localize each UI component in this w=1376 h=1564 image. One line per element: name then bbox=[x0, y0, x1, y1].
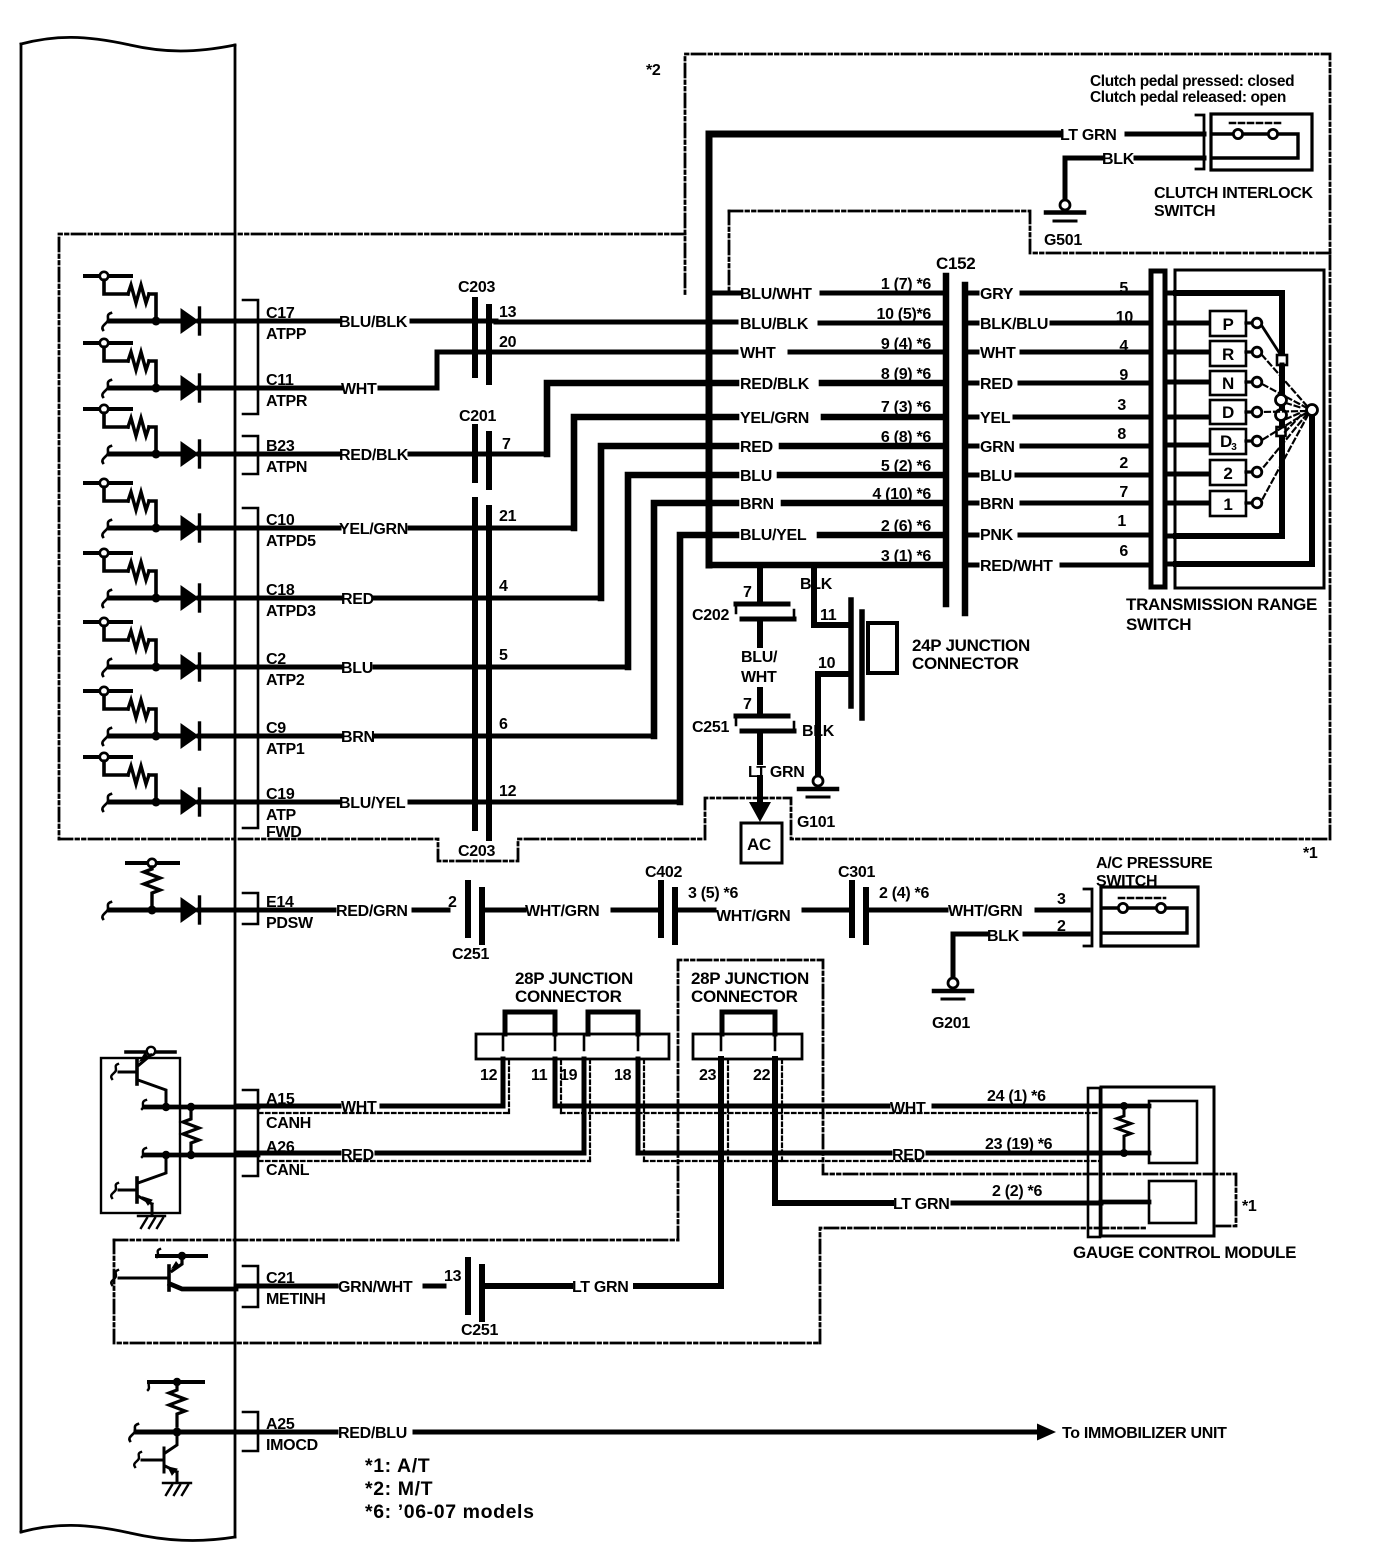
connector C202 (horizontal) bbox=[736, 604, 794, 619]
svg-text:G101: G101 bbox=[797, 814, 835, 831]
svg-text:TRANSMISSION RANGE: TRANSMISSION RANGE bbox=[1126, 595, 1317, 614]
svg-text:WHT/GRN: WHT/GRN bbox=[525, 903, 599, 920]
svg-text:*2: *2 bbox=[646, 62, 661, 79]
svg-text:GAUGE CONTROL MODULE: GAUGE CONTROL MODULE bbox=[1073, 1243, 1296, 1262]
wire C18 RED to C203 pin4 bbox=[236, 596, 601, 601]
svg-text:RED/BLK: RED/BLK bbox=[740, 376, 810, 393]
svg-text:CANH: CANH bbox=[266, 1115, 311, 1132]
svg-text:7: 7 bbox=[1119, 484, 1128, 501]
svg-text:2 (6) *6: 2 (6) *6 bbox=[881, 518, 931, 535]
BLK tee wire to 24P junction pin 11 bbox=[814, 565, 849, 625]
connector bracket A25 bbox=[243, 1412, 258, 1451]
28P JUNCTION CONNECTOR label (left) bbox=[515, 969, 633, 1006]
svg-text:1 (7) *6: 1 (7) *6 bbox=[881, 276, 931, 293]
svg-text:ATPR: ATPR bbox=[266, 393, 308, 410]
svg-text:10: 10 bbox=[818, 655, 836, 672]
svg-text:2 (4) *6: 2 (4) *6 bbox=[879, 885, 929, 902]
svg-text:BLK: BLK bbox=[802, 723, 835, 740]
TRS wiper: solid link from P bbox=[1262, 326, 1282, 357]
routing wire BLU/YEL riser bbox=[680, 535, 943, 802]
svg-text:7 (3) *6: 7 (3) *6 bbox=[881, 399, 931, 416]
28P junction connector (right) bar bbox=[693, 1034, 802, 1059]
svg-text:BLK: BLK bbox=[987, 928, 1020, 945]
svg-text:BLK/BLU: BLK/BLU bbox=[980, 316, 1048, 333]
svg-text:G201: G201 bbox=[932, 1015, 970, 1032]
svg-text:2: 2 bbox=[1223, 464, 1232, 483]
wire C19 BLU/YEL to C203 pin12 bbox=[236, 800, 680, 805]
svg-text:13: 13 bbox=[444, 1268, 462, 1285]
svg-text:8 (9) *6: 8 (9) *6 bbox=[881, 366, 931, 383]
sensor cell row C10 bbox=[85, 479, 236, 541]
connector bracket C17/C11 bbox=[243, 300, 258, 414]
svg-text:C251: C251 bbox=[452, 946, 489, 963]
range switch pin numbers bbox=[1116, 280, 1134, 560]
svg-text:CONNECTOR: CONNECTOR bbox=[515, 987, 622, 1006]
TRS gear letter boxes P R N D D3 2 1 bbox=[1210, 311, 1246, 516]
28P right pin 23 (long drop to LT GRN) bbox=[718, 1059, 724, 1286]
svg-text:12: 12 bbox=[499, 783, 517, 800]
C152 left labels bbox=[740, 286, 812, 544]
svg-text:WHT: WHT bbox=[980, 345, 1016, 362]
svg-text:WHT/GRN: WHT/GRN bbox=[716, 908, 790, 925]
routing wire BRN riser bbox=[654, 503, 943, 736]
svg-text:C402: C402 bbox=[645, 864, 682, 881]
svg-text:IMOCD: IMOCD bbox=[266, 1437, 318, 1454]
svg-text:BLU/YEL: BLU/YEL bbox=[740, 527, 807, 544]
ground G201 bbox=[932, 978, 972, 1032]
chassis ground hatch under Q2 bbox=[138, 1216, 165, 1228]
svg-text:RED: RED bbox=[980, 376, 1013, 393]
arrow to immobilizer bbox=[1037, 1424, 1056, 1441]
svg-text:RED/WHT: RED/WHT bbox=[980, 558, 1053, 575]
wiper circle nodes bbox=[1276, 395, 1287, 406]
chassis ground hatch under Q3 bbox=[163, 1483, 191, 1495]
connector C251 (E14 row) bbox=[468, 883, 482, 942]
A25 wire RED/BLU to immobilizer bbox=[236, 1430, 1038, 1435]
svg-text:CONNECTOR: CONNECTOR bbox=[691, 987, 798, 1006]
IMOCD cell: resistor + transistor bbox=[129, 1378, 236, 1441]
connector bracket A15/A26 bbox=[243, 1090, 258, 1176]
svg-text:ATPD3: ATPD3 bbox=[266, 603, 316, 620]
28P left bar pin ticks bbox=[503, 1036, 638, 1050]
clutch interlock BLK wire bbox=[1065, 158, 1204, 200]
TRANSMISSION RANGE SWITCH label bbox=[1126, 595, 1317, 634]
AC box bbox=[741, 823, 782, 863]
sensor cell row C17 bbox=[85, 272, 236, 334]
A/C PRESSURE SWITCH label bbox=[1096, 855, 1213, 890]
sensor cell row B23 bbox=[85, 405, 236, 467]
svg-text:N: N bbox=[1222, 374, 1234, 393]
svg-text:WHT: WHT bbox=[740, 345, 776, 362]
svg-text:*1: *1 bbox=[1303, 845, 1318, 862]
dashed fan to R N D D3 2 1 bbox=[1262, 355, 1308, 500]
svg-text:11: 11 bbox=[820, 607, 837, 624]
svg-text:BLU/BLK: BLU/BLK bbox=[740, 316, 809, 333]
svg-text:To IMMOBILIZER UNIT: To IMMOBILIZER UNIT bbox=[1062, 1425, 1227, 1442]
ground G101 bbox=[797, 776, 837, 831]
svg-text:21: 21 bbox=[499, 508, 517, 525]
svg-text:9: 9 bbox=[1119, 367, 1128, 384]
svg-text:ATP1: ATP1 bbox=[266, 741, 305, 758]
svg-text:BRN: BRN bbox=[740, 496, 774, 513]
METINH transistor cell bbox=[111, 1249, 236, 1290]
connector C402 bbox=[661, 883, 675, 942]
svg-text:2 (2) *6: 2 (2) *6 bbox=[992, 1183, 1042, 1200]
gauge module lower element box bbox=[1149, 1181, 1196, 1223]
svg-text:BLU/WHT: BLU/WHT bbox=[740, 286, 812, 303]
C152 right labels bbox=[980, 286, 1053, 575]
svg-text:23 (19) *6: 23 (19) *6 bbox=[985, 1136, 1053, 1153]
svg-text:19: 19 bbox=[560, 1067, 578, 1084]
wire C9 BRN to C203 pin6 bbox=[236, 734, 654, 739]
routing wire RED/BLK riser bbox=[547, 383, 943, 454]
CAN upper transistor Q1 bbox=[111, 1053, 166, 1107]
TRS inner wire loop (GRY to PNK) bbox=[1176, 293, 1282, 536]
wiper square node bbox=[1277, 355, 1287, 365]
svg-text:1: 1 bbox=[1223, 495, 1232, 514]
routing wire YEL/GRN riser bbox=[574, 417, 943, 528]
C152 row 1 BLU/WHT wire bbox=[709, 291, 943, 296]
svg-text:BLK: BLK bbox=[1102, 151, 1135, 168]
gauge module connector bracket bbox=[1088, 1088, 1100, 1237]
svg-text:3: 3 bbox=[1117, 397, 1126, 414]
svg-text:CONNECTOR: CONNECTOR bbox=[912, 654, 1019, 673]
gauge control module box bbox=[1101, 1087, 1214, 1236]
24P JUNCTION CONNECTOR label bbox=[912, 636, 1030, 673]
svg-text:Clutch pedal pressed: closed: Clutch pedal pressed: closed bbox=[1090, 73, 1294, 90]
svg-text:1: 1 bbox=[1117, 513, 1126, 530]
wire C10 YEL/GRN to C203 pin21 bbox=[236, 526, 574, 531]
svg-text:ATPN: ATPN bbox=[266, 459, 307, 476]
svg-text:BRN: BRN bbox=[980, 496, 1014, 513]
C152 row 10 / 3(1)*6 wire bbox=[709, 562, 943, 569]
svg-text:*6: ’06-07 models: *6: ’06-07 models bbox=[365, 1501, 535, 1523]
svg-text:C202: C202 bbox=[692, 607, 729, 624]
wire C11 WHT with step up to C203 pin20 bbox=[236, 352, 943, 388]
svg-text:R: R bbox=[1222, 345, 1234, 364]
clutch interlock switch contacts bbox=[1212, 123, 1298, 158]
svg-text:6: 6 bbox=[1119, 543, 1128, 560]
connector C152 bars bbox=[946, 276, 965, 613]
E14 row wire RED/GRN bbox=[236, 908, 448, 913]
connector C251 (horizontal) bbox=[736, 716, 794, 731]
svg-text:10 (5)*6: 10 (5)*6 bbox=[876, 306, 931, 323]
gauge module internal WHT wire bbox=[1101, 1104, 1149, 1109]
TRS common wire to RED/WHT bbox=[1176, 410, 1312, 564]
C152 right wires to range switch connector bbox=[969, 293, 1150, 565]
dash-dot box *1 (A/T section) bbox=[59, 54, 1330, 861]
connector bracket E14 bbox=[243, 893, 258, 924]
svg-text:C251: C251 bbox=[461, 1322, 498, 1339]
wire B23 RED/BLK to C201 pin7 bbox=[236, 452, 547, 457]
svg-text:8: 8 bbox=[1117, 426, 1126, 443]
CANL internal wire bbox=[142, 1148, 258, 1159]
svg-text:LT GRN: LT GRN bbox=[572, 1279, 629, 1296]
connector C203 (lower tall) bbox=[475, 500, 489, 838]
svg-text:D: D bbox=[1222, 403, 1234, 422]
svg-text:7: 7 bbox=[743, 696, 752, 713]
svg-text:RED: RED bbox=[740, 439, 773, 456]
E14 cell: pull-up resistor vertical + diode bbox=[102, 859, 236, 923]
twisted pair dotted line RED bbox=[259, 1059, 1101, 1161]
svg-text:BLU: BLU bbox=[341, 660, 373, 677]
28P right staple bbox=[722, 1012, 775, 1034]
svg-text:22: 22 bbox=[753, 1067, 771, 1084]
svg-text:SWITCH: SWITCH bbox=[1096, 873, 1157, 890]
gauge module internal LT GRN wire bbox=[1101, 1200, 1149, 1205]
24P pin 10 wire to ground bbox=[818, 674, 849, 775]
svg-text:3: 3 bbox=[1231, 442, 1237, 453]
connector C203 (upper) bbox=[475, 300, 489, 382]
svg-text:C201: C201 bbox=[459, 408, 496, 425]
svg-text:9 (4) *6: 9 (4) *6 bbox=[881, 336, 931, 353]
wire BLU/WHT between C202 and C251 bbox=[757, 622, 763, 713]
svg-text:ATPD5: ATPD5 bbox=[266, 533, 316, 550]
svg-text:7: 7 bbox=[743, 584, 752, 601]
CANH internal wire bbox=[142, 1100, 258, 1111]
A/C pressure switch bracket bbox=[1084, 889, 1092, 946]
svg-text:ATP: ATP bbox=[266, 807, 297, 824]
svg-text:SWITCH: SWITCH bbox=[1126, 615, 1191, 634]
routing wire BLU riser bbox=[628, 475, 943, 667]
CAN transceiver circuit box bbox=[101, 1047, 180, 1213]
svg-text:C251: C251 bbox=[692, 719, 729, 736]
connector bracket B23 bbox=[243, 436, 258, 474]
twisted pair dotted line WHT bbox=[259, 1059, 1101, 1161]
28P left staple 2 bbox=[588, 1012, 638, 1034]
svg-text:BLU: BLU bbox=[980, 468, 1012, 485]
svg-text:5 (2) *6: 5 (2) *6 bbox=[881, 458, 931, 475]
wire WHT/GRN 1 bbox=[485, 908, 661, 913]
pin name labels left column bbox=[266, 305, 326, 1454]
C152 left pin labels bbox=[872, 276, 931, 565]
svg-text:BLK: BLK bbox=[800, 576, 833, 593]
svg-text:YEL: YEL bbox=[980, 410, 1011, 427]
svg-text:2: 2 bbox=[1119, 455, 1128, 472]
svg-text:23: 23 bbox=[699, 1067, 717, 1084]
CLUTCH INTERLOCK SWITCH label bbox=[1154, 185, 1313, 220]
svg-text:Clutch pedal released: open: Clutch pedal released: open bbox=[1090, 89, 1286, 106]
sensor cell row C11 bbox=[85, 339, 236, 401]
svg-text:P: P bbox=[1222, 315, 1233, 334]
svg-text:D: D bbox=[1220, 432, 1232, 451]
TRS internal row stubs to gear contacts bbox=[1166, 293, 1210, 564]
svg-text:SWITCH: SWITCH bbox=[1154, 203, 1215, 220]
28P left pins bbox=[501, 1059, 506, 1106]
heavy bus wire (M/T clutch line) bbox=[709, 134, 1060, 565]
svg-text:6: 6 bbox=[499, 716, 508, 733]
footnotes bbox=[365, 1455, 535, 1523]
sensor cell row C9 bbox=[85, 687, 236, 749]
METINH LT GRN wire bbox=[485, 1283, 721, 1289]
connector C201 bbox=[475, 427, 489, 487]
svg-text:LT GRN: LT GRN bbox=[748, 764, 805, 781]
sensor cell row C19 bbox=[85, 753, 236, 815]
connector C251 (METINH row) bbox=[468, 1260, 482, 1319]
clutch interlock switch bracket bbox=[1196, 115, 1204, 169]
clutch pedal note bbox=[1090, 73, 1294, 106]
wiper solid vertical bbox=[1280, 365, 1285, 395]
wire C17 BLU/BLK to C203 pin13 then to C152 bbox=[236, 321, 943, 323]
svg-text:C152: C152 bbox=[936, 254, 975, 273]
svg-text:RED/BLU: RED/BLU bbox=[338, 1425, 407, 1442]
CAN termination resistor bbox=[183, 1111, 199, 1151]
svg-text:BLU/: BLU/ bbox=[741, 649, 778, 666]
svg-text:3 (1) *6: 3 (1) *6 bbox=[881, 548, 931, 565]
CAN WHT wire (CANH) bbox=[236, 1104, 1101, 1109]
svg-text:28P JUNCTION: 28P JUNCTION bbox=[691, 969, 809, 988]
clutch interlock switch box bbox=[1211, 114, 1312, 170]
svg-text:3 (5) *6: 3 (5) *6 bbox=[688, 885, 738, 902]
svg-text:BLU/BLK: BLU/BLK bbox=[339, 314, 408, 331]
transmission range switch box bbox=[1175, 270, 1324, 588]
gauge module upper element box bbox=[1149, 1101, 1197, 1163]
connector C301 bbox=[852, 883, 866, 942]
svg-text:*1: A/T: *1: A/T bbox=[365, 1455, 430, 1477]
A/C switch BLK wire bbox=[953, 934, 1088, 978]
24P junction connector element bbox=[868, 623, 897, 673]
wire C2 BLU to C203 pin5 bbox=[236, 665, 628, 670]
svg-text:20: 20 bbox=[499, 334, 517, 351]
svg-text:C203: C203 bbox=[458, 843, 495, 860]
svg-text:24 (1) *6: 24 (1) *6 bbox=[987, 1088, 1046, 1105]
svg-text:3: 3 bbox=[1057, 891, 1066, 908]
svg-text:2: 2 bbox=[448, 894, 457, 911]
wire color labels left column bbox=[336, 314, 413, 1442]
svg-text:*2: M/T: *2: M/T bbox=[365, 1478, 433, 1500]
svg-text:BLU/YEL: BLU/YEL bbox=[339, 795, 406, 812]
svg-text:YEL/GRN: YEL/GRN bbox=[339, 521, 408, 538]
24P junction connector bars bbox=[851, 600, 862, 718]
wire LT GRN with arrow into AC bbox=[757, 734, 763, 801]
routing wire RED riser bbox=[601, 446, 943, 598]
svg-text:12: 12 bbox=[480, 1067, 498, 1084]
svg-text:WHT: WHT bbox=[890, 1100, 926, 1117]
A/C tap wire down from RED/WHT line bbox=[757, 565, 763, 600]
svg-text:CANL: CANL bbox=[266, 1162, 310, 1179]
28P junction connector (left) bar bbox=[476, 1034, 669, 1059]
svg-text:LT GRN: LT GRN bbox=[893, 1196, 950, 1213]
svg-text:RED/BLK: RED/BLK bbox=[339, 447, 409, 464]
svg-text:4: 4 bbox=[1119, 338, 1128, 355]
svg-text:RED: RED bbox=[341, 591, 374, 608]
svg-text:CLUTCH INTERLOCK: CLUTCH INTERLOCK bbox=[1154, 185, 1313, 202]
METINH wire GRN/WHT bbox=[236, 1284, 444, 1289]
svg-text:BLU: BLU bbox=[740, 468, 772, 485]
svg-text:10: 10 bbox=[1116, 309, 1134, 326]
A/C pressure switch contacts bbox=[1102, 898, 1187, 933]
sensor cell row C18 bbox=[85, 549, 236, 611]
LT GRN label right + pin bbox=[953, 1201, 1101, 1206]
svg-text:WHT/GRN: WHT/GRN bbox=[948, 903, 1022, 920]
wire WHT/GRN 2 bbox=[678, 908, 852, 913]
wire LT GRN to switch bbox=[1127, 132, 1204, 137]
gauge module internal resistor bbox=[1120, 1102, 1128, 1110]
svg-text:WHT: WHT bbox=[341, 381, 377, 398]
28P right pin 22 bbox=[775, 1059, 891, 1203]
svg-text:GRN/WHT: GRN/WHT bbox=[338, 1279, 413, 1296]
svg-text:C301: C301 bbox=[838, 864, 875, 881]
sensor cell row C2 bbox=[85, 618, 236, 680]
gauge module internal RED wire bbox=[1101, 1151, 1149, 1156]
svg-text:METINH: METINH bbox=[266, 1291, 326, 1308]
arrowhead bbox=[749, 802, 771, 822]
svg-text:4: 4 bbox=[499, 578, 508, 595]
transmission range switch 10P connector bar bbox=[1151, 271, 1165, 587]
svg-text:2: 2 bbox=[1057, 918, 1066, 935]
TRS contact stubs and circles bbox=[1246, 318, 1262, 508]
svg-text:4 (10) *6: 4 (10) *6 bbox=[872, 486, 931, 503]
dash-dot box METINH (A/T) bbox=[114, 960, 1236, 1343]
svg-text:RED/GRN: RED/GRN bbox=[336, 903, 408, 920]
svg-text:7: 7 bbox=[502, 436, 511, 453]
svg-text:GRY: GRY bbox=[980, 286, 1014, 303]
svg-text:WHT: WHT bbox=[741, 669, 777, 686]
A/C pressure switch box bbox=[1101, 887, 1198, 946]
svg-text:C203: C203 bbox=[458, 279, 495, 296]
svg-text:PDSW: PDSW bbox=[266, 915, 314, 932]
svg-text:13: 13 bbox=[499, 304, 517, 321]
svg-text:5: 5 bbox=[499, 647, 508, 664]
svg-text:28P JUNCTION: 28P JUNCTION bbox=[515, 969, 633, 988]
svg-text:11: 11 bbox=[531, 1067, 548, 1084]
IMOCD transistor Q3 bbox=[134, 1436, 177, 1482]
ground G501 bbox=[1044, 200, 1084, 249]
svg-text:6 (8) *6: 6 (8) *6 bbox=[881, 429, 931, 446]
PCM/ECM module outline (torn edges) bbox=[21, 37, 235, 1540]
svg-text:ATP2: ATP2 bbox=[266, 672, 305, 689]
svg-text:GRN: GRN bbox=[980, 439, 1015, 456]
CAN RED wire (CANL) bbox=[236, 1151, 1101, 1156]
svg-text:5: 5 bbox=[1119, 280, 1128, 297]
28P JUNCTION CONNECTOR label (right) bbox=[691, 969, 809, 1006]
svg-text:BRN: BRN bbox=[341, 729, 375, 746]
svg-text:24P JUNCTION: 24P JUNCTION bbox=[912, 636, 1030, 655]
svg-text:*1: *1 bbox=[1242, 1198, 1257, 1215]
connector bracket C10..C19 bbox=[243, 508, 258, 828]
svg-text:ATPP: ATPP bbox=[266, 326, 307, 343]
svg-text:G501: G501 bbox=[1044, 232, 1082, 249]
svg-text:RED: RED bbox=[892, 1147, 925, 1164]
svg-text:AC: AC bbox=[747, 835, 771, 854]
CAN lower transistor Q2 bbox=[111, 1155, 166, 1214]
svg-text:A/C PRESSURE: A/C PRESSURE bbox=[1096, 855, 1213, 872]
svg-text:YEL/GRN: YEL/GRN bbox=[740, 410, 809, 427]
svg-text:LT GRN: LT GRN bbox=[1060, 127, 1117, 144]
svg-text:18: 18 bbox=[614, 1067, 632, 1084]
wire WHT/GRN 3 bbox=[869, 908, 1088, 913]
28P left staple 1 bbox=[505, 1012, 555, 1034]
connector bracket C21 bbox=[243, 1266, 258, 1307]
svg-text:PNK: PNK bbox=[980, 527, 1014, 544]
